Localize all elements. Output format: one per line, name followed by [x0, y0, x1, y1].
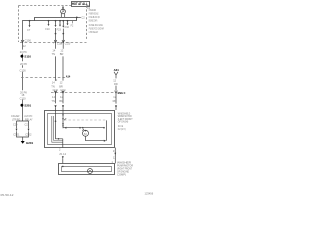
motor M1 [82, 129, 88, 136]
park switch line [63, 118, 105, 128]
branch labels [11, 114, 33, 126]
motor output wire [86, 136, 107, 142]
svg-text:C125: C125 [65, 41, 71, 45]
branch split [17, 121, 29, 129]
svg-text:C2 (GY): C2 (GY) [118, 127, 126, 131]
divider dashed line D2 [21, 76, 66, 78]
connector ticks on D1 wire A [53, 40, 63, 45]
C2 tap right of bar [76, 17, 85, 20]
splice S201 [21, 104, 32, 108]
wire upper box to pump [112, 148, 117, 164]
svg-text:F32: F32 [65, 26, 70, 29]
svg-text:C126: C126 [20, 68, 27, 72]
wire B labels above D3 [59, 81, 66, 92]
wire bar to left drop [23, 21, 35, 43]
svg-text:F23: F23 [57, 29, 62, 32]
svg-text:C21: C21 [25, 122, 30, 126]
svg-text:M: M [84, 132, 87, 136]
branch connector arrows [13, 129, 32, 137]
internal right rail [106, 120, 108, 140]
svg-text:C100: C100 [25, 38, 32, 42]
wire A mid run [55, 43, 57, 104]
bar pin 1 [45, 20, 50, 31]
wire C labels below D3 [113, 95, 117, 103]
feed wire with arrow [62, 6, 64, 9]
fuse box annotation text [89, 8, 104, 34]
bar pin 3 [65, 20, 70, 29]
washer pump box outer [59, 164, 115, 175]
circuit breaker U1 [61, 9, 66, 14]
pump symbol [88, 169, 93, 174]
divider dashed line D1 [20, 41, 87, 43]
svg-text:G201: G201 [26, 141, 33, 145]
wire A labels under D1 [52, 49, 56, 57]
internal wire B pins [62, 113, 64, 128]
svg-text:20 PK: 20 PK [20, 50, 27, 54]
svg-text:LTR/PO: LTR/PO [12, 118, 20, 122]
mech dashed link [64, 119, 106, 121]
wiper motor label [118, 111, 133, 131]
bar pin 2 [57, 20, 62, 32]
internal wire from inner top left 1 [52, 116, 63, 142]
exit connector arrow [62, 156, 64, 163]
internal wire from inner top left 2 [54, 116, 63, 141]
svg-text:20 PK: 20 PK [20, 62, 27, 66]
wire B arrow into box [62, 105, 64, 113]
connector C100 on left wire [21, 38, 31, 48]
washer pump label [117, 161, 133, 177]
svg-text:COMP): COMP) [117, 172, 126, 176]
svg-text:F10: F10 [45, 28, 50, 31]
tap arrow at node [27, 21, 31, 32]
wire B labels below D3 [59, 95, 63, 103]
svg-text:C110: C110 [20, 96, 27, 100]
wire left column lower [22, 90, 24, 121]
wire C splice Y [114, 72, 118, 79]
fuse box dashed border [19, 6, 90, 43]
wire A labels below D3 [51, 95, 55, 103]
svg-text:BR: BR [60, 52, 64, 56]
wire C run [115, 86, 117, 104]
svg-text:LTR RELAY: LTR RELAY [89, 30, 98, 34]
wire A arrow into box [54, 105, 56, 113]
wiper motor box outer [45, 111, 115, 148]
svg-text:BR: BR [59, 99, 63, 103]
bus bar [35, 18, 77, 21]
svg-text:TN: TN [52, 52, 56, 56]
node on left wire [29, 20, 31, 22]
wire B mid run [62, 43, 64, 104]
wire B from bar [62, 20, 64, 43]
exit wire B [62, 139, 64, 148]
ground G201 [21, 141, 34, 145]
svg-text:S201: S201 [24, 104, 31, 108]
bar pin 4 [71, 21, 74, 28]
svg-text:Z1 12: Z1 12 [59, 152, 66, 156]
svg-text:05-50-12: 05-50-12 [1, 193, 15, 197]
svg-text:RD: RD [113, 99, 117, 103]
svg-text:123456: 123456 [145, 191, 154, 195]
label box HOT AT ALL TIMES [72, 2, 90, 7]
divider dashed line D3 [51, 92, 116, 94]
splice S110 [21, 55, 32, 59]
svg-text:A31: A31 [114, 68, 120, 72]
wire C labels [113, 79, 118, 87]
internal wire A path [55, 113, 63, 140]
svg-text:A14: A14 [66, 75, 71, 79]
wire left column upper [22, 43, 24, 90]
svg-text:RELAY: RELAY [25, 118, 33, 122]
svg-text:C110: C110 [53, 90, 59, 92]
connector ticks on D1 wire B [60, 40, 70, 45]
washer pump box inner [62, 167, 112, 172]
svg-text:BR: BR [59, 84, 63, 88]
entry node [62, 166, 64, 168]
svg-text:ENGINE COMP): ENGINE COMP) [89, 18, 97, 22]
branch join to ground [17, 131, 29, 141]
D3 ticks [54, 91, 117, 94]
wire labels [20, 90, 28, 100]
svg-text:C20: C20 [13, 122, 18, 126]
wire A labels above D3 [51, 81, 58, 92]
wiper motor box inner [48, 114, 112, 145]
svg-text:S110: S110 [24, 55, 31, 59]
wire labels mid [20, 62, 28, 73]
breaker legs [61, 14, 64, 17]
svg-text:TN: TN [51, 99, 55, 103]
wire A from bar [55, 20, 57, 43]
svg-text:ENG C: ENG C [118, 91, 126, 95]
svg-text:HOT AT ALL: HOT AT ALL [72, 2, 88, 6]
wire B labels under D1 [60, 49, 64, 57]
svg-text:C110: C110 [60, 90, 66, 92]
svg-text:TN: TN [51, 84, 55, 88]
wire C arrow into box [115, 105, 117, 110]
